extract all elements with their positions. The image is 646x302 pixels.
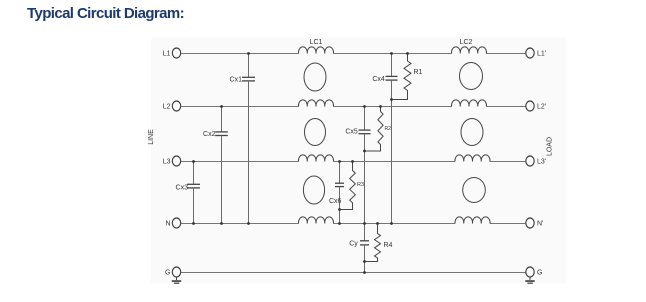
ground symbol (right): [525, 277, 534, 284]
node G (right terminal): [526, 267, 543, 277]
capacitor Cx6: [329, 162, 344, 224]
inductor LC1 winding a (L1 rail): [298, 47, 333, 54]
inductor LC1 winding c (L3 rail): [298, 155, 333, 162]
resistor R1: [392, 54, 423, 100]
inductor LC1 winding b (L2 rail): [298, 100, 333, 107]
wire L1 rail left segment: [181, 53, 299, 55]
inductor LC2 winding a (L1 rail): [451, 47, 486, 54]
node L2' (right terminal): [526, 101, 546, 111]
node G (left terminal): [165, 267, 181, 277]
svg-text:R2: R2: [385, 126, 392, 132]
capacitor Cy: [349, 224, 369, 273]
resistor R3: [340, 162, 365, 210]
inductor LC2 winding b (L2 rail): [451, 100, 486, 107]
wire N rail middle segment: [334, 223, 456, 225]
wire L1 rail middle segment: [334, 53, 452, 55]
schematic background: [151, 38, 566, 284]
node L2 (left terminal): [163, 101, 181, 111]
LC1 core circle 1: [304, 63, 326, 91]
wire L2 rail middle segment: [334, 106, 452, 108]
svg-text:Cx6: Cx6: [329, 198, 342, 205]
node L3 (left terminal): [163, 156, 181, 166]
svg-text:Cy: Cy: [349, 241, 358, 248]
svg-text:Cx5: Cx5: [345, 129, 358, 136]
wire L1 rail right segment: [487, 53, 526, 55]
inductor LC2 winding c (L3 rail): [455, 155, 490, 162]
junction dots: [192, 52, 409, 274]
capacitor Cx4: [372, 54, 397, 224]
node L1 (left terminal): [163, 48, 181, 58]
LC2 core circle 2: [461, 119, 483, 146]
svg-text:L1: L1: [163, 51, 171, 58]
svg-text:L1': L1': [537, 51, 546, 58]
LC2 core circle 3: [463, 178, 486, 203]
svg-text:G: G: [537, 270, 542, 277]
svg-text:LC2: LC2: [460, 39, 473, 46]
LC1 core circle 3: [303, 176, 324, 204]
LC2 core circle 1: [460, 63, 483, 90]
svg-text:R3: R3: [357, 182, 364, 188]
wire L3 rail right segment: [490, 161, 526, 163]
inductor LC1 winding d (N rail): [298, 217, 333, 224]
wire N rail right segment: [490, 223, 526, 225]
resistor R2: [365, 107, 392, 152]
svg-text:Cx3: Cx3: [176, 185, 189, 192]
svg-text:L2': L2': [537, 104, 546, 111]
inductor LC2 winding d (N rail): [455, 217, 490, 224]
svg-text:R4: R4: [384, 242, 393, 249]
wire L2 rail right segment: [487, 106, 526, 108]
svg-text:Cx1: Cx1: [230, 77, 243, 84]
node N (left terminal): [165, 218, 180, 228]
svg-text:N: N: [165, 221, 170, 228]
svg-text:LOAD: LOAD: [547, 137, 554, 156]
node L3' (right terminal): [526, 156, 546, 166]
capacitor Cx3: [176, 162, 200, 224]
capacitor Cx2: [203, 107, 228, 224]
wire L3 rail middle segment: [334, 161, 456, 163]
svg-text:L3': L3': [537, 159, 546, 166]
svg-text:N': N': [537, 221, 543, 228]
svg-text:L3: L3: [163, 159, 171, 166]
resistor R4: [365, 224, 393, 262]
svg-text:L2: L2: [163, 104, 171, 111]
wire L2 rail left segment: [181, 106, 299, 108]
ground symbol (left): [172, 277, 181, 284]
wire N rail left segment: [181, 223, 299, 225]
svg-text:Cx2: Cx2: [203, 131, 216, 138]
svg-text:LINE: LINE: [148, 129, 155, 145]
node L1' (right terminal): [526, 48, 546, 58]
svg-text:LC1: LC1: [310, 39, 323, 46]
svg-text:Cx4: Cx4: [372, 76, 385, 83]
capacitor Cx5: [345, 107, 370, 224]
wire G rail: [181, 272, 526, 274]
LC1 core circle 2: [305, 119, 326, 146]
node N' (right terminal): [526, 218, 544, 228]
capacitor Cx1: [230, 54, 255, 224]
wire L3 rail left segment: [181, 161, 299, 163]
svg-text:G: G: [165, 270, 170, 277]
svg-text:R1: R1: [414, 69, 423, 76]
